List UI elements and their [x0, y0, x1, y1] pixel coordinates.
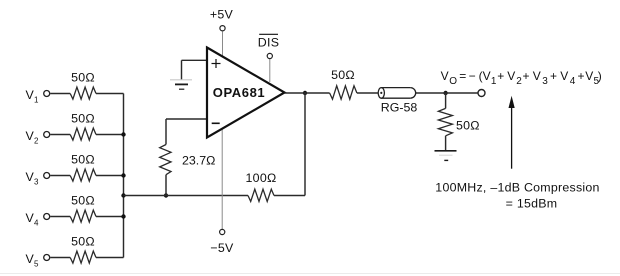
svg-text:+: + [497, 69, 504, 83]
svg-text:(V: (V [479, 69, 491, 83]
svg-text:V: V [507, 69, 515, 83]
svg-text:100MHz, –1dB Compression: 100MHz, –1dB Compression [435, 181, 599, 195]
svg-text:50Ω: 50Ω [71, 71, 95, 85]
svg-text:+: + [578, 69, 585, 83]
svg-text:5: 5 [34, 260, 39, 269]
svg-text:+5V: +5V [210, 8, 234, 22]
svg-text:+: + [550, 69, 557, 83]
svg-text:100Ω: 100Ω [246, 171, 277, 185]
svg-text:DIS: DIS [258, 36, 279, 50]
svg-text:50Ω: 50Ω [331, 68, 355, 82]
svg-text:OPA681: OPA681 [213, 85, 266, 100]
svg-text:50Ω: 50Ω [71, 112, 95, 126]
svg-text:O: O [449, 76, 457, 87]
svg-text:50Ω: 50Ω [71, 194, 95, 208]
svg-text:50Ω: 50Ω [71, 235, 95, 249]
svg-text:= 15dBm: = 15dBm [506, 197, 558, 211]
svg-text:−5V: −5V [210, 241, 234, 255]
svg-text:V: V [560, 69, 568, 83]
svg-text:V: V [585, 69, 593, 83]
svg-text:2: 2 [34, 137, 39, 146]
svg-text:50Ω: 50Ω [456, 119, 480, 133]
svg-text:1: 1 [491, 76, 497, 87]
svg-text:V: V [441, 69, 449, 83]
svg-text:50Ω: 50Ω [71, 153, 95, 167]
svg-text:2: 2 [516, 76, 522, 87]
svg-text:4: 4 [34, 219, 39, 228]
svg-text:+: + [523, 69, 530, 83]
svg-text:23.7Ω: 23.7Ω [182, 154, 215, 168]
svg-text:3: 3 [34, 178, 39, 187]
svg-text:3: 3 [542, 76, 548, 87]
svg-text:RG-58: RG-58 [381, 101, 418, 115]
svg-text:−: − [469, 69, 476, 83]
svg-text:V: V [533, 69, 541, 83]
svg-text:): ) [598, 69, 602, 83]
svg-text:1: 1 [34, 96, 39, 105]
svg-text:=: = [459, 69, 466, 83]
svg-text:4: 4 [570, 76, 576, 87]
